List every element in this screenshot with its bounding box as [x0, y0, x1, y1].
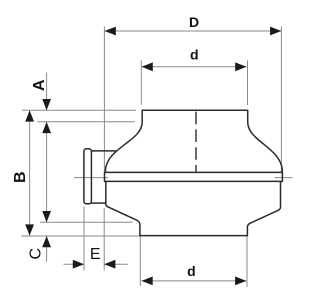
svg-text:A: A	[31, 79, 48, 91]
fan lower shell	[106, 181, 281, 235]
arrowhead E left	[73, 260, 84, 269]
center axis dashed	[195, 112, 197, 173]
fan mid flange	[105, 172, 283, 181]
dimension line d top	[142, 66, 247, 68]
extension line A bottom	[38, 121, 136, 123]
extension line E right	[103, 208, 105, 271]
arrowhead E right	[104, 260, 115, 269]
svg-text:d: d	[190, 47, 199, 63]
extension line d-top left	[140, 61, 142, 105]
dimension shaft A-C middle	[46, 122, 48, 222]
arrowhead A down	[42, 99, 51, 110]
extension line d-bottom right	[246, 236, 248, 287]
dimension shaft E left	[64, 263, 85, 265]
svg-text:d: d	[187, 263, 196, 279]
svg-text:E: E	[90, 246, 101, 263]
extension line bottom edge (B/C)	[21, 235, 140, 237]
extension line C top	[40, 221, 133, 223]
extension line d-top right	[247, 61, 249, 106]
extension line top edge (A/B)	[22, 109, 136, 111]
extension line D right	[280, 27, 282, 173]
arrowhead D left	[105, 27, 116, 36]
side port tube bottom edge	[91, 202, 105, 204]
dimension line B	[29, 110, 31, 235]
mid joint tick left	[74, 177, 108, 179]
extension line d-bottom left	[139, 236, 141, 286]
arrowhead d-bottom right	[235, 277, 246, 286]
extension line E left	[83, 207, 85, 271]
dimension shaft A above	[46, 73, 48, 111]
side port tube top edge	[91, 150, 116, 152]
arrowhead C up	[42, 236, 51, 247]
arrowhead D right	[270, 27, 281, 36]
svg-text:C: C	[27, 248, 44, 260]
arrowhead d-top left	[142, 62, 153, 71]
extension line D left	[103, 27, 105, 173]
dimension shaft E right	[104, 263, 128, 265]
arrowhead A up	[42, 122, 51, 133]
mid joint tick right	[275, 177, 293, 179]
svg-text:D: D	[189, 14, 199, 30]
svg-text:B: B	[12, 171, 29, 183]
dimension line D	[105, 30, 282, 32]
arrowhead d-bottom left	[142, 277, 153, 286]
side port cap	[84, 149, 92, 204]
arrowhead B bottom	[25, 224, 34, 235]
arrowhead d-top right	[235, 62, 246, 71]
fan upper shell	[105, 110, 282, 172]
dimension shaft C below	[46, 236, 48, 262]
arrowhead C down	[42, 211, 51, 222]
dimension line d bottom	[142, 280, 247, 282]
arrowhead B top	[25, 110, 34, 121]
